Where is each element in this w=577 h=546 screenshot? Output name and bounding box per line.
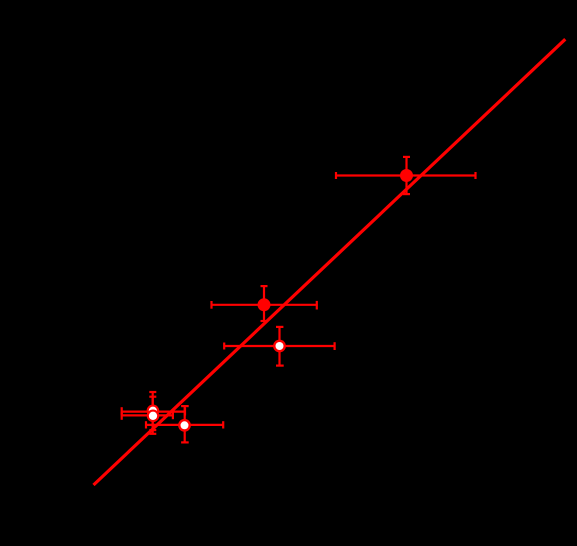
point A filled marker [400, 169, 413, 182]
point A x error bar [336, 172, 476, 179]
point C open marker [273, 340, 286, 353]
point B x error bar [212, 301, 317, 310]
fit line [94, 39, 566, 485]
point F open marker [178, 419, 191, 432]
point B y error bar [261, 286, 268, 321]
point C y error bar [276, 327, 284, 366]
point D open marker (back) [147, 405, 160, 418]
point E open marker (front) [147, 410, 160, 423]
point E x error bar [122, 412, 173, 420]
point C x error bar [224, 342, 334, 350]
point D y error bar [149, 392, 156, 434]
point B filled marker [258, 298, 271, 311]
point F y error bar [181, 406, 189, 442]
point F x error bar [146, 421, 223, 428]
point D x error bar [122, 407, 185, 415]
point E y error bar [149, 397, 156, 430]
point A y error bar [403, 157, 410, 194]
